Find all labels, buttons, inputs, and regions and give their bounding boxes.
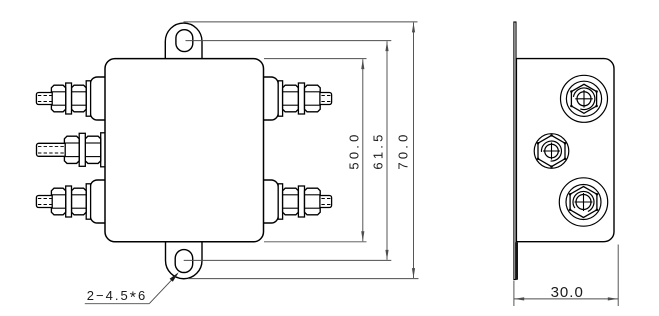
dimension line 70.0	[396, 22, 416, 278]
svg-text:70.0: 70.0	[396, 131, 411, 169]
upper-right terminal outer hex nut	[305, 85, 321, 112]
side view mounting bracket flange (edge-on)	[514, 22, 516, 280]
bracket flange thick section below body	[515, 242, 518, 279]
bottom mounting tab	[166, 242, 203, 279]
side view upper terminal	[561, 75, 608, 122]
filter body box	[105, 59, 264, 242]
lower-left terminal threaded stud	[36, 196, 52, 208]
side view lower terminal	[559, 178, 607, 226]
upper-right terminal threaded stud	[320, 93, 332, 105]
svg-text:50.0: 50.0	[347, 131, 362, 169]
extension line from top tab crest	[184, 21, 418, 23]
svg-text:30.0: 30.0	[551, 284, 584, 301]
middle-left terminal spacer washer	[79, 133, 85, 166]
upper-right terminal spacer washer	[298, 83, 304, 114]
middle-left terminal outer hex nut	[85, 136, 100, 163]
bottom mounting slot hole	[175, 250, 193, 273]
lower-left terminal outer hex nut	[72, 188, 87, 215]
top mounting tab	[165, 23, 202, 59]
upper-right terminal inner hex nut	[283, 85, 299, 112]
upper-left terminal threaded stud	[36, 93, 52, 105]
lower-right terminal flange washer	[278, 184, 282, 219]
lower-right terminal base bushing	[262, 180, 278, 223]
leader note 2-4.5*6 for mounting slots	[85, 272, 179, 306]
upper-right terminal base bushing	[262, 77, 278, 120]
extension line from box top edge	[264, 58, 367, 60]
dimension line 61.5	[371, 41, 389, 260]
lower-right terminal outer hex nut	[305, 188, 321, 215]
lower-right terminal inner hex nut	[283, 188, 299, 215]
middle-left terminal threaded stud	[37, 143, 66, 156]
lower-left terminal flange washer	[86, 184, 90, 219]
lower-left terminal spacer washer	[66, 186, 72, 217]
lower-right terminal threaded stud	[320, 196, 332, 208]
dimension line 30.0	[514, 284, 618, 301]
side view body	[516, 59, 614, 242]
extension line from box bottom edge	[264, 241, 367, 243]
extension line left of 30.0	[513, 281, 515, 307]
middle-left terminal flange washer	[101, 133, 106, 167]
upper-left terminal base bushing	[90, 77, 106, 120]
dimension line 50.0	[347, 59, 365, 241]
top mounting slot hole	[176, 30, 193, 52]
lower-right terminal spacer washer	[298, 186, 304, 217]
upper-left terminal flange washer	[86, 81, 90, 116]
extension line from top slot center	[186, 40, 392, 42]
svg-text:61.5: 61.5	[371, 131, 386, 169]
lower-left terminal inner hex nut	[51, 188, 65, 215]
upper-left terminal outer hex nut	[72, 85, 87, 112]
upper-right terminal flange washer	[278, 81, 282, 116]
middle-left terminal inner hex nut	[64, 136, 79, 163]
upper-left terminal inner hex nut	[51, 85, 65, 112]
extension line right of 30.0	[617, 245, 619, 307]
lower-left terminal base bushing	[90, 180, 106, 223]
side view middle terminal	[534, 134, 569, 169]
extension line from bottom tab crest	[188, 278, 419, 280]
upper-left terminal spacer washer	[66, 83, 72, 114]
extension line from bottom slot center	[184, 259, 392, 261]
